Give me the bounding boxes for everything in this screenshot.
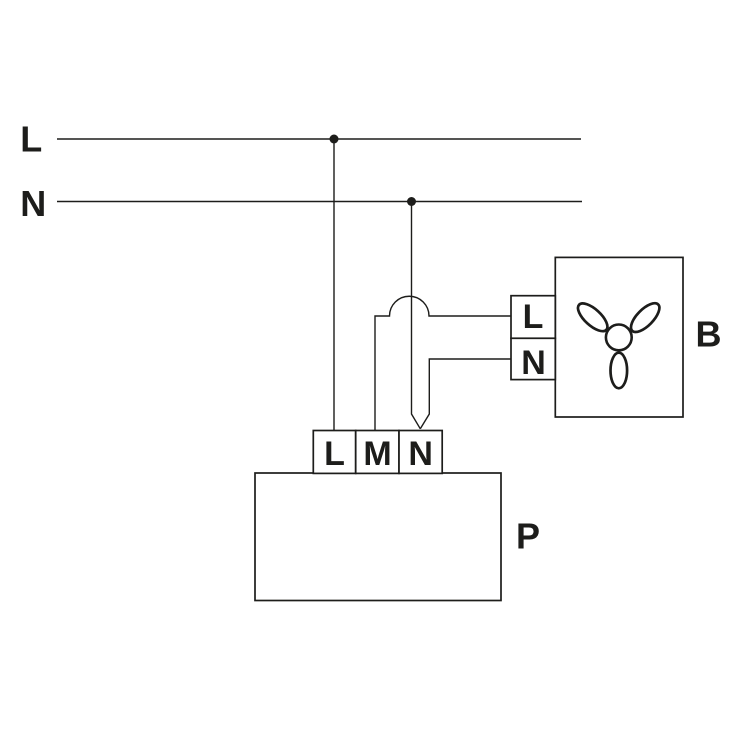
fan terminal box N <box>511 338 555 379</box>
junction dot on N line <box>407 197 416 206</box>
svg-text:N: N <box>408 435 433 473</box>
fan box B <box>555 257 683 417</box>
wire from controller terminal M to fan terminal L with hop over N wire <box>375 296 511 430</box>
fan icon blade upper-right <box>626 299 663 337</box>
wire from L junction down to controller terminal L <box>333 139 335 431</box>
fan icon hub <box>606 325 632 351</box>
controller terminal box M <box>356 431 399 474</box>
svg-text:L: L <box>523 298 544 336</box>
svg-text:L: L <box>20 119 42 160</box>
svg-text:B: B <box>696 314 722 355</box>
svg-text:N: N <box>521 344 546 382</box>
svg-text:N: N <box>20 183 46 224</box>
controller box P <box>255 473 501 601</box>
power line N <box>57 201 582 203</box>
svg-text:M: M <box>363 435 391 473</box>
fan icon blade bottom <box>611 353 628 389</box>
junction dot on L line <box>330 135 339 144</box>
fan icon blade upper-left <box>574 299 612 336</box>
wire from fan terminal N down into arrow (right half) <box>420 359 511 429</box>
fan terminal box L <box>511 296 555 339</box>
power line L <box>57 138 581 140</box>
svg-text:P: P <box>516 515 540 556</box>
svg-text:L: L <box>324 435 345 473</box>
controller terminal box N <box>399 431 442 474</box>
controller terminal box L <box>313 431 355 474</box>
wire from N junction down into arrow (left half) <box>412 202 421 429</box>
